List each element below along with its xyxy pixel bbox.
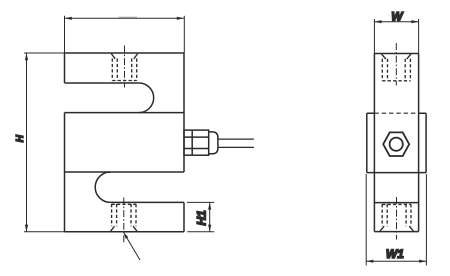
front top threaded hole [111, 46, 137, 88]
width dim arrows [65, 17, 184, 20]
thread hidden lines [382, 204, 411, 226]
wide block left edge [366, 113, 368, 172]
cable gland nut (hex, end view) [383, 132, 409, 156]
top bar bottom edge [65, 82, 139, 84]
extension line bottom [187, 231, 214, 233]
middle bar top edge [65, 112, 185, 114]
chamfer [111, 54, 137, 59]
svg-text:W1: W1 [386, 247, 404, 261]
extension line left [64, 16, 66, 53]
dim line [209, 202, 211, 231]
cable gland body [184, 130, 218, 155]
H dim arrows [25, 53, 28, 232]
centerline [124, 46, 126, 88]
side bottom threaded hole [380, 197, 414, 240]
front view: S-beam load cell body outline [65, 53, 185, 232]
H1 dim arrows [208, 202, 211, 231]
dim line [65, 17, 184, 19]
extension line top [24, 52, 65, 54]
right edge lower [183, 202, 185, 231]
dim line [26, 53, 28, 232]
side view bottom edge [374, 231, 418, 233]
W1 dim arrows [366, 260, 426, 263]
svg-text:H1: H1 [195, 210, 209, 226]
right edge upper [183, 53, 185, 172]
wide block top edge hidden part [374, 112, 418, 114]
top edge [65, 52, 185, 54]
left edge upper [64, 53, 66, 83]
gland hex flat lines [184, 137, 209, 148]
side view lower slot bottom edge [374, 202, 418, 204]
dimension: front width (top, unlabeled) [65, 16, 185, 53]
hole bottom hidden line [382, 203, 411, 205]
front bottom threaded hole [111, 198, 137, 243]
side top threaded hole [382, 43, 412, 86]
thread hidden lines [112, 59, 136, 81]
dim line [366, 260, 426, 262]
dimension H1 (bottom right of front view) [187, 202, 214, 231]
chamfer [380, 226, 414, 231]
hole bottom hidden line [112, 203, 136, 205]
extension line right [425, 174, 427, 266]
cable hole circle [390, 138, 403, 151]
bottom edge [65, 231, 185, 233]
extension line left [373, 19, 375, 54]
thread leader line [124, 233, 140, 260]
gland dome cap [209, 132, 218, 154]
hole bottom hidden line [382, 80, 410, 82]
W dim arrows [374, 20, 418, 23]
centerline [395, 43, 397, 86]
extension line top [187, 201, 214, 203]
upper slot arc [139, 83, 154, 113]
leader arrowhead [124, 233, 129, 239]
left edge lower [64, 113, 66, 232]
thread hidden lines [112, 204, 136, 226]
svg-text:H: H [15, 134, 26, 142]
extension line left [365, 174, 367, 266]
gland inner vertical [191, 130, 193, 155]
lower slot arc [95, 172, 110, 202]
hole bottom hidden line [112, 80, 136, 82]
dim line [374, 21, 418, 23]
extension line right [418, 19, 420, 54]
side view: right full-height edge [418, 54, 420, 232]
extension line bottom [24, 231, 65, 233]
centerline [396, 197, 398, 240]
wide block top edge solid parts [367, 112, 426, 114]
wide block bottom edge [367, 172, 426, 174]
side view wide middle block [367, 113, 426, 172]
chamfer [111, 226, 137, 231]
dimension H (left) [24, 53, 65, 232]
thread hidden lines [382, 59, 410, 81]
dimension W1 (bottom of side view) [366, 174, 426, 266]
wide block right edge [425, 113, 427, 172]
lower slot bottom edge [110, 201, 184, 203]
cable lines [218, 139, 254, 147]
middle bar bottom edge [65, 171, 185, 173]
dimension W (top of side view) [374, 19, 418, 54]
side view: left full-height edge [373, 54, 375, 232]
side view top edge [374, 53, 418, 55]
svg-text:W: W [391, 9, 404, 23]
centerline [123, 198, 125, 243]
extension line right [183, 16, 185, 53]
faint thick spot on dim line [119, 16, 138, 18]
chamfer [382, 54, 412, 59]
